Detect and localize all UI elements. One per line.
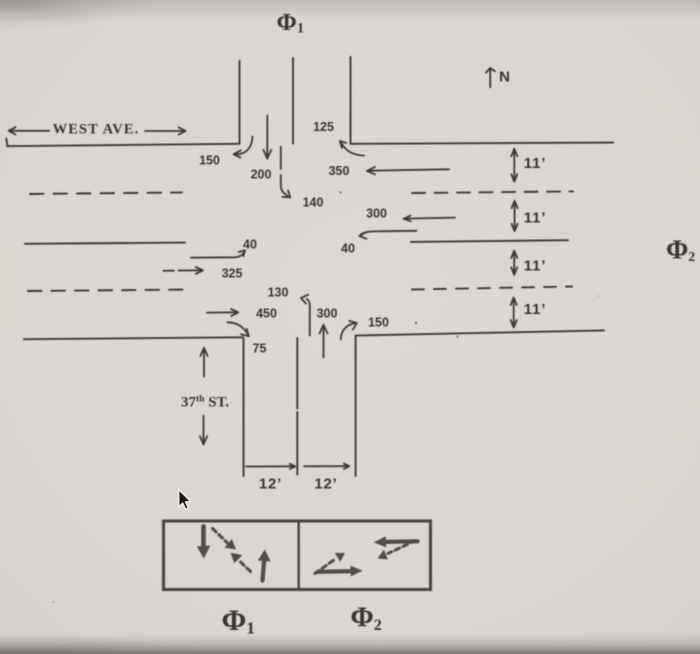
svg-text:11’: 11’: [524, 258, 546, 275]
svg-text:40: 40: [341, 242, 355, 256]
svg-text:300: 300: [366, 207, 387, 221]
svg-text:N: N: [499, 68, 511, 85]
svg-text:450: 450: [256, 307, 277, 321]
svg-text:350: 350: [329, 164, 350, 178]
svg-text:325: 325: [222, 267, 243, 281]
svg-text:WEST AVE.: WEST AVE.: [53, 121, 140, 137]
svg-text:37th ST.: 37th ST.: [181, 395, 229, 411]
svg-text:11’: 11’: [524, 210, 546, 227]
svg-text:150: 150: [199, 154, 220, 168]
svg-text:11’: 11’: [524, 155, 546, 172]
svg-text:300: 300: [317, 307, 338, 321]
svg-text:150: 150: [368, 316, 389, 330]
svg-text:75: 75: [253, 342, 267, 356]
svg-text:140: 140: [303, 196, 324, 210]
svg-text:11’: 11’: [524, 301, 546, 318]
svg-text:200: 200: [251, 168, 272, 182]
svg-text:40: 40: [243, 238, 257, 252]
svg-text:130: 130: [268, 286, 289, 300]
svg-text:125: 125: [313, 120, 334, 134]
svg-text:12’: 12’: [314, 476, 337, 493]
svg-text:12’: 12’: [259, 476, 282, 493]
